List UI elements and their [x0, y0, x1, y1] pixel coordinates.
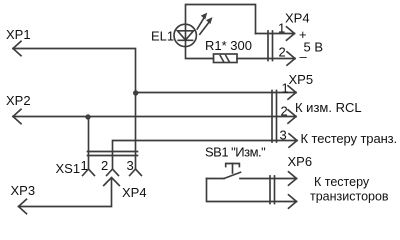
svg-text:1: 1 — [282, 81, 289, 96]
svg-text:К тестеру транз.: К тестеру транз. — [301, 131, 398, 146]
svg-text:3: 3 — [280, 128, 287, 143]
svg-text:XP1: XP1 — [6, 27, 31, 42]
svg-text:R1* 300: R1* 300 — [205, 38, 252, 53]
svg-text:2: 2 — [279, 45, 286, 60]
svg-text:SB1 "Изм.": SB1 "Изм." — [205, 145, 266, 160]
svg-text:XP5: XP5 — [289, 72, 314, 87]
svg-text:XP4: XP4 — [285, 11, 310, 26]
svg-text:2: 2 — [101, 158, 108, 173]
svg-text:1: 1 — [81, 158, 88, 173]
svg-text:2: 2 — [281, 104, 288, 119]
svg-text:XS1: XS1 — [56, 161, 81, 176]
svg-text:1: 1 — [278, 21, 285, 36]
svg-text:XP6: XP6 — [288, 154, 313, 169]
svg-text:XP2: XP2 — [6, 93, 31, 108]
svg-text:–: – — [300, 49, 308, 64]
svg-text:EL1: EL1 — [151, 29, 174, 44]
svg-text:К тестеру: К тестеру — [314, 175, 370, 189]
svg-text:XP3: XP3 — [11, 183, 36, 198]
svg-text:К изм. RCL: К изм. RCL — [295, 100, 362, 115]
svg-text:транзисторов: транзисторов — [310, 190, 389, 204]
svg-text:XP4: XP4 — [122, 185, 147, 200]
svg-text:3: 3 — [127, 158, 134, 173]
